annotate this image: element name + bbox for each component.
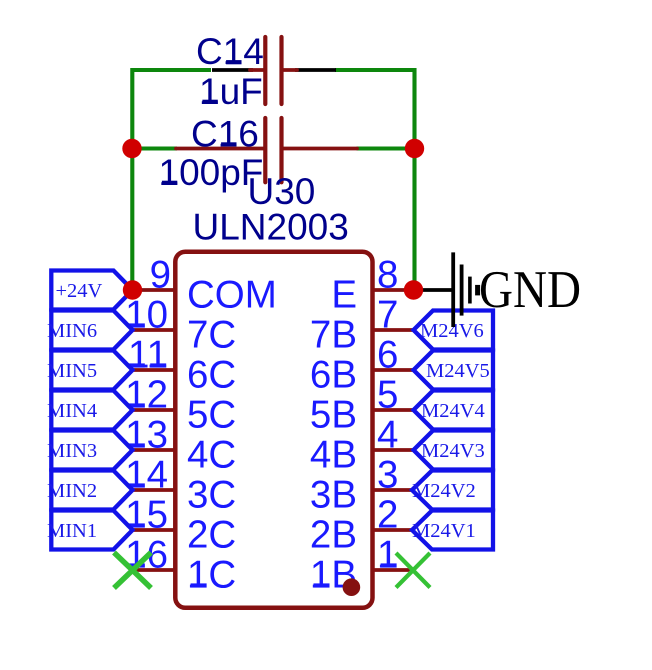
svg-text:2C: 2C <box>187 514 236 557</box>
no-connect pin 1 <box>396 553 430 588</box>
junction <box>123 280 142 299</box>
svg-text:M24V5: M24V5 <box>426 360 490 382</box>
svg-text:M24V4: M24V4 <box>421 400 485 422</box>
svg-text:4B: 4B <box>310 434 357 477</box>
wire <box>335 70 415 290</box>
pin 4 <box>310 414 414 477</box>
junction <box>122 139 141 158</box>
svg-text:MIN4: MIN4 <box>47 400 97 422</box>
svg-text:MIN2: MIN2 <box>47 480 97 502</box>
pin 1 marker dot <box>343 578 361 596</box>
svg-text:GND: GND <box>479 261 581 319</box>
label C14 <box>196 31 264 72</box>
svg-text:MIN5: MIN5 <box>47 360 97 382</box>
pin 5 <box>310 374 414 437</box>
pin 12 <box>125 374 236 437</box>
svg-text:+24V: +24V <box>56 280 103 302</box>
svg-text:M24V2: M24V2 <box>412 480 476 502</box>
svg-text:COM: COM <box>187 274 277 317</box>
pin 9 <box>132 254 277 317</box>
pin 7 <box>310 294 414 357</box>
svg-text:5: 5 <box>377 374 398 417</box>
svg-text:4C: 4C <box>187 434 236 477</box>
pin 15 <box>125 494 236 557</box>
label U30 <box>248 171 316 212</box>
svg-text:M24V1: M24V1 <box>412 520 476 542</box>
svg-text:7B: 7B <box>310 314 357 357</box>
svg-text:1C: 1C <box>187 554 236 597</box>
net label +24V <box>51 271 132 310</box>
wire <box>132 146 177 150</box>
svg-text:9: 9 <box>150 254 171 297</box>
svg-text:6: 6 <box>377 334 398 377</box>
net label MIN4 <box>47 391 133 430</box>
wire <box>295 68 336 72</box>
svg-text:MIN6: MIN6 <box>47 320 97 342</box>
svg-text:7C: 7C <box>187 314 236 357</box>
svg-text:3B: 3B <box>310 474 357 517</box>
svg-text:2: 2 <box>377 494 398 537</box>
pin 6 <box>310 334 414 397</box>
pin 10 <box>125 294 236 357</box>
label 1uF <box>199 71 263 112</box>
pin 14 <box>125 454 236 517</box>
wire <box>132 70 211 290</box>
capacitor C16 <box>176 118 357 182</box>
pin 1 <box>310 534 410 597</box>
pin 11 <box>128 334 236 397</box>
svg-text:ULN2003: ULN2003 <box>193 207 349 248</box>
svg-text:6B: 6B <box>310 354 357 397</box>
wire <box>357 146 415 150</box>
net label MIN2 <box>47 471 133 510</box>
label ULN2003 <box>193 207 349 248</box>
junction <box>404 280 423 299</box>
net label M24V6 <box>414 311 494 350</box>
capacitor C14 <box>250 37 297 104</box>
svg-text:2B: 2B <box>310 514 357 557</box>
pin 13 <box>125 414 236 477</box>
pin 16 <box>125 534 236 597</box>
svg-text:5C: 5C <box>187 394 236 437</box>
net label M24V4 <box>414 391 494 430</box>
pin 8 <box>331 254 413 317</box>
net label MIN3 <box>47 431 133 470</box>
wire <box>212 68 253 72</box>
net label MIN5 <box>47 351 133 390</box>
svg-text:E: E <box>331 274 357 317</box>
svg-text:MIN3: MIN3 <box>47 440 97 462</box>
pin 2 <box>310 494 412 557</box>
no-connect pin 16 <box>114 553 151 589</box>
label C16 <box>191 113 259 154</box>
svg-text:4: 4 <box>377 414 398 457</box>
net label M24V3 <box>414 431 494 470</box>
svg-text:3: 3 <box>377 454 398 497</box>
svg-text:3C: 3C <box>187 474 236 517</box>
svg-text:1uF: 1uF <box>199 71 263 112</box>
svg-text:7: 7 <box>377 294 398 337</box>
net label MIN1 <box>47 511 133 550</box>
junction <box>405 139 424 158</box>
svg-text:C16: C16 <box>191 113 259 154</box>
svg-text:8: 8 <box>377 254 398 297</box>
svg-text:MIN1: MIN1 <box>47 520 97 542</box>
net label M24V2 <box>412 471 493 510</box>
label 100pF <box>159 152 264 193</box>
svg-text:C14: C14 <box>196 31 264 72</box>
svg-text:5B: 5B <box>310 394 357 437</box>
net label MIN6 <box>47 311 133 350</box>
net label M24V1 <box>412 511 493 550</box>
ground GND <box>453 252 581 327</box>
wire <box>412 288 452 292</box>
pin 3 <box>310 454 412 517</box>
svg-text:6C: 6C <box>187 354 236 397</box>
net label M24V5 <box>414 351 494 390</box>
svg-text:M24V3: M24V3 <box>421 440 485 462</box>
IC U30 body <box>175 252 372 608</box>
